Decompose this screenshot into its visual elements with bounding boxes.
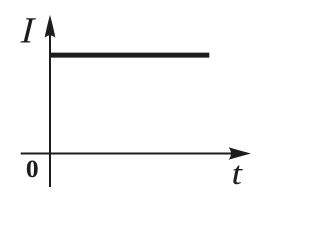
svg-text:0: 0 (26, 154, 39, 183)
y-axis arrowhead (45, 15, 56, 38)
x-axis (horizontal) (21, 153, 243, 155)
label I (y-axis) (19, 11, 37, 52)
svg-text:t: t (232, 156, 244, 192)
svg-text:I: I (19, 11, 37, 52)
y-axis (vertical) (49, 27, 51, 187)
constant current segment (thick line) (49, 53, 209, 58)
x-axis arrowhead (229, 147, 251, 160)
